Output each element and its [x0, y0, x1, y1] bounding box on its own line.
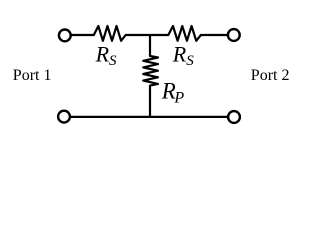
svg-text:RS: RS: [95, 41, 117, 69]
svg-text:Port 1: Port 1: [13, 67, 52, 84]
svg-text:Port 2: Port 2: [251, 67, 290, 84]
svg-text:RP: RP: [161, 79, 185, 107]
svg-text:RS: RS: [172, 41, 194, 69]
